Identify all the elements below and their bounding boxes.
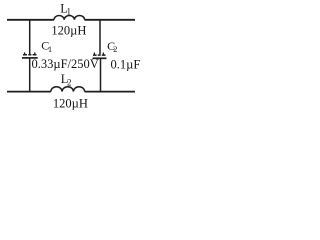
inductor L1 <box>54 15 85 19</box>
wire: bottom rail left segment <box>7 91 51 93</box>
inductor L2 <box>51 87 85 92</box>
capacitor C1 <box>22 52 38 58</box>
wire: bottom rail right segment <box>85 91 135 93</box>
svg-text:0.33µF/250V: 0.33µF/250V <box>32 57 99 71</box>
wire: C2 lower stem <box>100 58 102 91</box>
svg-text:L1: L1 <box>60 1 71 16</box>
svg-text:C2: C2 <box>107 39 117 54</box>
svg-text:120µH: 120µH <box>51 23 86 37</box>
svg-text:0.1µF: 0.1µF <box>111 57 141 71</box>
wire: C2 upper stem <box>99 20 101 55</box>
wire: top rail right segment <box>85 19 136 21</box>
wire: C1 upper stem <box>29 20 31 54</box>
wire: top rail left segment <box>7 19 54 21</box>
capacitor C2 <box>93 53 107 59</box>
svg-text:L2: L2 <box>61 72 72 87</box>
wire: C1 lower stem <box>29 58 31 92</box>
svg-text:120µH: 120µH <box>53 97 88 111</box>
svg-text:C1: C1 <box>41 39 52 55</box>
